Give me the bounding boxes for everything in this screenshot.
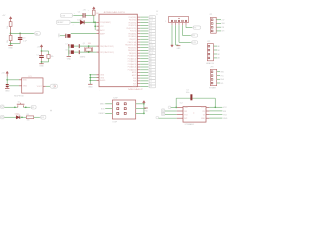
ISP pin pair 3 xyxy=(117,112,119,114)
svg-text:GND: GND xyxy=(67,58,72,60)
wire GND pin 2 xyxy=(90,77,96,79)
svg-text:A2: A2 xyxy=(218,53,220,56)
ground GND (IC1) xyxy=(88,83,92,85)
net flag D8 xyxy=(148,38,149,40)
pad VOUT connector xyxy=(50,84,57,88)
IC1 right pin PC0(ADC0) xyxy=(137,55,140,57)
wire D10 xyxy=(140,44,148,46)
junction GND 3 xyxy=(89,80,91,82)
wire VDD to IC3 xyxy=(7,79,19,81)
svg-text:GND: GND xyxy=(88,86,93,88)
JP1 pin 1 xyxy=(211,19,213,21)
svg-text:PC2(ADC2): PC2(ADC2) xyxy=(128,60,137,63)
svg-text:PD2(INT0): PD2(INT0) xyxy=(129,22,137,24)
resistor R3 xyxy=(47,55,50,59)
JP2 pin 4 xyxy=(208,57,210,59)
wire SV1 pin1 to +5V xyxy=(171,25,173,45)
IC1 left pin GND xyxy=(96,77,99,79)
svg-text:PB5(SCK): PB5(SCK) xyxy=(129,53,137,55)
IC2 left pin TXO xyxy=(177,114,183,116)
JP1 pin 2 xyxy=(211,23,213,25)
wire VOUT xyxy=(46,85,50,87)
net flag ADC xyxy=(34,32,36,34)
svg-text:MCP9700: MCP9700 xyxy=(14,96,24,98)
wire bottom node xyxy=(11,43,21,45)
resistor R1 pullup xyxy=(93,10,96,15)
IC1 right pin PD7(AIN1) xyxy=(137,36,140,38)
wire IC2 VCC out xyxy=(209,106,222,108)
junction VCC tie 2 xyxy=(94,25,96,27)
junction XTAL2 Q1 xyxy=(88,51,90,53)
svg-text:VCC: VCC xyxy=(223,107,228,109)
wire VCC rail right xyxy=(214,98,216,107)
net flag DTR xyxy=(72,14,74,16)
resistor R2 xyxy=(10,33,12,35)
wire IC2 GND out xyxy=(209,117,222,119)
wire C6 to AREF pin xyxy=(71,33,97,35)
svg-text:10k: 10k xyxy=(7,40,9,43)
svg-text:GND: GND xyxy=(223,118,228,120)
crystal Q1 xyxy=(86,48,92,51)
wire XTAL1 xyxy=(80,45,97,47)
wire D9 xyxy=(140,41,148,43)
wire A3 xyxy=(140,63,148,65)
wire ISP GND xyxy=(136,108,146,110)
op-amp IC3 MCP9700 box xyxy=(22,78,43,93)
svg-text:PC5(ADC5): PC5(ADC5) xyxy=(128,68,137,71)
svg-text:3V3: 3V3 xyxy=(221,31,224,33)
IC1 left pin PB7(XTAL2/TOSC2) xyxy=(96,51,99,53)
IC1 right pin PB4(MISO) xyxy=(137,49,140,51)
svg-text:GND: GND xyxy=(5,90,10,92)
svg-text:PC6(/RESET): PC6(/RESET) xyxy=(100,22,111,24)
junction gnd node xyxy=(41,61,43,63)
SV1 mark xyxy=(178,18,179,19)
JP2 pin 2 xyxy=(208,49,210,51)
wire A6 xyxy=(140,72,148,74)
pin header row3 xyxy=(161,112,164,115)
junction bottom xyxy=(10,43,12,45)
IC1 left pin GND xyxy=(96,74,99,76)
svg-text:R4: R4 xyxy=(27,114,29,116)
capacitor C6 (AREF) xyxy=(64,34,67,38)
power +5V arrow (left filter) xyxy=(9,17,12,19)
IC1 right pin PB0(ICP) xyxy=(137,38,140,40)
wire SV1 pin3 to flag xyxy=(178,25,180,42)
IC1 right pin PC2(ADC2) xyxy=(137,60,140,62)
net flag D5 xyxy=(148,77,149,79)
pin header row4 xyxy=(156,116,159,118)
svg-text:A0: A0 xyxy=(218,45,220,48)
connector JP1 box xyxy=(211,17,217,33)
wire D6 xyxy=(140,80,148,82)
wire SCK xyxy=(140,52,148,54)
svg-text:C4: C4 xyxy=(23,38,26,40)
svg-text:GND: GND xyxy=(8,47,13,49)
connector ISP box xyxy=(112,100,135,119)
wire P2 to LED1 xyxy=(4,116,16,118)
svg-text:JP3: JP3 xyxy=(210,67,213,69)
net flag D7 xyxy=(148,83,149,85)
net flag SW xyxy=(30,106,32,108)
wire ISP right vertical xyxy=(143,104,145,114)
IC2 right pin GND xyxy=(206,117,209,119)
IC1 right pin PC5(ADC5) xyxy=(137,69,140,71)
svg-text:JP1: JP1 xyxy=(209,14,212,16)
power +5V arrow down (header) xyxy=(171,45,174,47)
JP3 pin 2 xyxy=(211,75,213,77)
wire XTAL2 xyxy=(80,51,97,53)
JP1 pin 3 xyxy=(211,26,213,28)
svg-text:GND: GND xyxy=(39,66,44,68)
IC1 left pin PB6(XTAL1/TOSC1) xyxy=(96,45,99,47)
wire S1 to flag xyxy=(23,106,30,108)
svg-text:1 uF: 1 uF xyxy=(23,41,28,43)
wire D3 xyxy=(140,24,148,26)
IC1 right pin PB2(SS/OC1B) xyxy=(137,44,140,46)
ground GND (filter) xyxy=(10,44,12,46)
svg-text:PD0(RXD): PD0(RXD) xyxy=(129,17,137,19)
wire node A right xyxy=(11,32,34,34)
net flag D5 xyxy=(148,30,149,32)
svg-text:JP2: JP2 xyxy=(207,41,210,43)
svg-text:+5V: +5V xyxy=(1,73,5,75)
IC1 right pin PD4(XCK/T0) xyxy=(137,27,140,29)
connector JP3 box xyxy=(210,69,216,85)
svg-text:GND: GND xyxy=(100,75,105,77)
wire R4 to flag xyxy=(34,116,40,118)
net flag A1 xyxy=(148,58,149,60)
IC1 right pin PD0(RXD) xyxy=(137,16,140,18)
resistor R1 xyxy=(9,22,12,27)
wire SV1 pin4 to flag xyxy=(182,25,184,35)
svg-text:DTR: DTR xyxy=(61,15,66,17)
net flag D10 xyxy=(148,44,149,46)
svg-text:>: > xyxy=(74,12,75,15)
svg-text:PB1(OC1A): PB1(OC1A) xyxy=(128,41,137,44)
IC1 left pin AREF xyxy=(96,33,99,35)
junction XTAL1 Q1 xyxy=(88,45,90,47)
node A junction xyxy=(10,33,12,35)
IC1 ATMEGA8 box xyxy=(99,14,137,87)
net flag D6 xyxy=(148,33,149,35)
svg-text:MISO: MISO xyxy=(100,104,105,106)
svg-text:PB4(MISO): PB4(MISO) xyxy=(128,50,137,52)
net flag TXD xyxy=(148,19,149,21)
wire A4 xyxy=(140,66,148,68)
IC1 right pin PC4(ADC4) xyxy=(137,66,140,68)
svg-text:SDA: SDA xyxy=(220,78,224,81)
IC1 right pin PC1(ADC1) xyxy=(137,58,140,60)
svg-text:PB6(XTAL1/TOSC1): PB6(XTAL1/TOSC1) xyxy=(100,45,114,48)
wire A5 xyxy=(140,69,148,71)
junction LED row xyxy=(21,116,23,118)
connector JP2 box xyxy=(207,44,213,61)
wire C5 to reset node xyxy=(86,14,94,16)
svg-text:RX: RX xyxy=(202,111,205,113)
svg-text:D1: D1 xyxy=(80,19,82,21)
svg-text:PD7: PD7 xyxy=(133,83,136,85)
svg-text:FTDIBASIC: FTDIBASIC xyxy=(185,123,195,126)
IC1 left pin AGND xyxy=(96,79,99,81)
svg-text:PD1(TXD): PD1(TXD) xyxy=(129,20,137,22)
IC1 right pin AIN1 xyxy=(137,85,140,87)
wire node B to R3 xyxy=(42,50,49,52)
svg-text:ADC6: ADC6 xyxy=(132,71,136,74)
wire LED1 to R4 xyxy=(20,116,26,118)
wire D5 xyxy=(140,77,148,79)
IC1 right pin PD1(TXD) xyxy=(137,19,140,21)
JP3 pin 4 xyxy=(211,82,213,84)
svg-text:RESET: RESET xyxy=(57,22,64,24)
svg-text:GND: GND xyxy=(100,77,105,79)
net flag D2 xyxy=(148,22,149,24)
svg-text:>: > xyxy=(73,24,74,27)
wire D8 xyxy=(140,38,148,40)
net flag A5 xyxy=(148,69,149,71)
net flag DTR header xyxy=(191,41,193,43)
junction S1 left xyxy=(14,106,16,108)
svg-text:3V3: 3V3 xyxy=(184,118,187,120)
wire gnd to C6 xyxy=(60,35,66,37)
IC1 left pin PC6(/RESET) xyxy=(96,21,99,23)
IC1 right pin PD5 xyxy=(137,77,140,79)
wire ISP RESET xyxy=(105,112,112,114)
JP3 pin 1 xyxy=(211,71,213,73)
svg-text:S1: S1 xyxy=(18,101,20,103)
svg-text:10k: 10k xyxy=(51,56,54,58)
svg-text:GND: GND xyxy=(58,33,60,38)
svg-text:IC1: IC1 xyxy=(29,76,32,78)
ground GND (decoupling) xyxy=(41,62,43,64)
svg-text:..: .. xyxy=(99,89,100,91)
svg-text:100n: 100n xyxy=(186,92,190,94)
wire SV1 pin2 to GND xyxy=(175,25,177,45)
svg-text:MEGA8-P: MEGA8-P xyxy=(128,88,144,91)
net flag A3 xyxy=(148,63,149,65)
pin header P2 xyxy=(1,116,4,119)
IC1 right pin ADC7 xyxy=(137,74,140,76)
svg-text:GND: GND xyxy=(184,107,189,109)
net flag A6 xyxy=(148,72,149,74)
svg-text:PD7(AIN1): PD7(AIN1) xyxy=(128,35,136,38)
ground GND (crystal caps) xyxy=(67,56,71,58)
IC1 right pin PD2(INT0) xyxy=(137,22,140,24)
svg-text:C5: C5 xyxy=(78,12,80,14)
svg-text:C1: C1 xyxy=(36,55,38,57)
wire RESET flag to diode xyxy=(71,21,80,23)
net flag A7 xyxy=(148,74,149,76)
wire ISP MOSI xyxy=(136,112,144,114)
svg-text:330: 330 xyxy=(27,120,30,122)
svg-text:RESET: RESET xyxy=(99,113,106,115)
net flag A0 xyxy=(148,55,149,57)
svg-text:AIN1: AIN1 xyxy=(133,85,137,88)
svg-text:GND: GND xyxy=(221,23,225,25)
svg-text:VCC: VCC xyxy=(201,107,205,109)
wire sensor VDD rail xyxy=(6,77,8,85)
svg-text:LED1: LED1 xyxy=(15,113,19,115)
IC3 pin stubs xyxy=(19,79,22,81)
svg-text:C7: C7 xyxy=(65,43,67,45)
IC1 right pin PB3(MOSI) xyxy=(137,47,140,49)
IC1 right pin ADC6 xyxy=(137,72,140,74)
svg-text:VCC: VCC xyxy=(220,75,224,77)
svg-text:GND: GND xyxy=(23,86,28,88)
svg-text:ICSP: ICSP xyxy=(113,122,118,124)
IC1 right pin PB5(SCK) xyxy=(137,52,140,54)
svg-text:POWER: POWER xyxy=(209,87,216,89)
wire ISP VCC xyxy=(136,103,144,105)
JP1 pin 4 xyxy=(211,30,213,32)
SV1 pin 3 xyxy=(178,20,180,22)
net flag RESET xyxy=(69,21,71,23)
wire diode to IC1 RESET pin xyxy=(84,21,96,23)
svg-text:AREF: AREF xyxy=(100,32,105,35)
net flag D4 xyxy=(148,27,149,29)
capacitor C8 (XTAL2 load) xyxy=(67,50,70,54)
power +5V arrow (sensor) xyxy=(6,71,9,73)
IC1 left pin VCC xyxy=(96,25,99,27)
wire caps common xyxy=(68,46,70,56)
net flag D8 xyxy=(148,85,149,87)
ground GND (header) xyxy=(176,45,180,47)
capacitor C1 xyxy=(41,51,43,55)
IC1 right pin PC3(ADC3) xyxy=(137,63,140,65)
ISP pin pair 1 xyxy=(117,103,119,105)
svg-text:C8: C8 xyxy=(65,49,67,51)
junction GND 2 xyxy=(89,77,91,79)
svg-text:PB2(SS/OC1B): PB2(SS/OC1B) xyxy=(125,45,136,47)
net flag SCK xyxy=(148,52,149,54)
junction reset node xyxy=(93,21,95,23)
capacitor C4 xyxy=(19,33,21,37)
wire D4 xyxy=(140,27,148,29)
wire D2 xyxy=(140,22,148,24)
wire GND pin IC3 xyxy=(9,85,19,87)
wire TXD xyxy=(140,19,148,21)
wire A7 xyxy=(140,74,148,76)
junction C4 top xyxy=(19,33,21,35)
wire R3 to gnd node xyxy=(48,58,50,62)
svg-text:D2: D2 xyxy=(32,107,34,109)
junction VDD xyxy=(6,79,8,81)
wire D8 xyxy=(140,85,148,87)
net flag D6 xyxy=(148,80,149,82)
wire DTR to C5 xyxy=(73,14,82,16)
svg-text:+5V: +5V xyxy=(221,20,225,22)
svg-text:AVCC: AVCC xyxy=(100,29,105,32)
net flag MOSI xyxy=(148,47,149,49)
IC2 left pin RXI xyxy=(177,110,183,112)
wire A2 xyxy=(140,60,148,62)
svg-text:PD3(INT1): PD3(INT1) xyxy=(129,25,137,27)
svg-text:SCK: SCK xyxy=(101,108,105,110)
wire VCC rail left xyxy=(175,98,177,107)
IC1 right pin PD6(AIN0) xyxy=(137,33,140,35)
svg-text:>: > xyxy=(88,9,89,12)
wire IC2 TX out xyxy=(209,114,222,116)
connector SV1 box xyxy=(169,17,189,23)
junction GND 1 xyxy=(89,74,91,76)
net flag D7 xyxy=(148,36,149,38)
pin header row1 xyxy=(168,106,171,108)
LED arrows xyxy=(17,113,18,115)
IC2 left pin GND xyxy=(177,106,183,108)
wire VCC vertical tie xyxy=(94,22,96,30)
svg-text:G: G xyxy=(156,14,158,16)
net flag MISO xyxy=(148,49,149,51)
IC2 right pin TX xyxy=(206,114,209,116)
pin header row2 xyxy=(161,109,164,112)
svg-text:D3: D3 xyxy=(42,117,44,119)
svg-text:PC0(ADC0): PC0(ADC0) xyxy=(128,55,137,58)
svg-text:PB0(ICP): PB0(ICP) xyxy=(129,39,136,41)
wire ISP MISO xyxy=(105,103,112,105)
net flag D3 xyxy=(148,24,149,26)
capacitor C5 xyxy=(82,13,85,18)
junction ISP MOSI xyxy=(143,113,145,115)
IC2 module box xyxy=(183,107,206,123)
junction VCC tie 1 xyxy=(94,21,96,23)
svg-text:ATMEGA8-16PU: ATMEGA8-16PU xyxy=(104,11,126,14)
svg-text:GND: GND xyxy=(220,72,224,74)
svg-text:VOUT: VOUT xyxy=(37,86,43,88)
svg-text:ICSP: ICSP xyxy=(113,98,118,100)
svg-text:▸: ▸ xyxy=(194,112,195,115)
svg-text:1: 1 xyxy=(165,21,166,23)
IC1 right pin PB1(OC1A) xyxy=(137,41,140,43)
node B junction xyxy=(41,50,43,52)
wire GND common vertical xyxy=(89,75,91,84)
wire R1 to node A xyxy=(10,27,12,34)
svg-text:16MHz: 16MHz xyxy=(80,57,86,59)
capacitor C2 (sensor bypass) xyxy=(6,84,9,85)
IC1 right pin PD5(T1) xyxy=(137,30,140,32)
power +5V arrow (decoupling) xyxy=(40,45,43,47)
svg-text:PB3(MOSI): PB3(MOSI) xyxy=(128,47,137,49)
svg-text:VDD: VDD xyxy=(23,80,27,82)
svg-text:D8: D8 xyxy=(150,86,152,88)
svg-text:16M: 16M xyxy=(88,43,92,45)
net flag LED xyxy=(40,116,42,118)
wire A0 xyxy=(140,55,148,57)
svg-text:PD4(XCK/T0): PD4(XCK/T0) xyxy=(126,28,136,30)
SV1 pin 5 xyxy=(185,20,187,22)
wire D7 xyxy=(140,83,148,85)
net flag RXD xyxy=(148,16,149,18)
wire D5 xyxy=(140,30,148,32)
ISP pin pair 2 xyxy=(117,108,119,110)
resistor R4 xyxy=(26,116,33,119)
wire IC2 RX out xyxy=(209,110,222,112)
switch S1 xyxy=(17,105,19,107)
wire MOSI xyxy=(140,47,148,49)
power +5V arrow (ISP) xyxy=(143,101,146,103)
wire A1 xyxy=(140,58,148,60)
svg-text:PC4(ADC4): PC4(ADC4) xyxy=(128,66,137,69)
IC2 right pin RX xyxy=(206,110,209,112)
svg-text:GND: GND xyxy=(177,48,182,50)
svg-text:AGND: AGND xyxy=(100,79,106,82)
svg-text:5V: 5V xyxy=(156,11,158,13)
svg-text:A0: A0 xyxy=(36,32,38,35)
svg-text:PD5(T1): PD5(T1) xyxy=(130,31,136,33)
IC2 left pin 3V3 xyxy=(177,117,183,119)
wire RXD xyxy=(140,16,148,18)
IC1 right pin PD7 xyxy=(137,83,140,85)
IC1 right pin PD3(INT1) xyxy=(137,24,140,26)
